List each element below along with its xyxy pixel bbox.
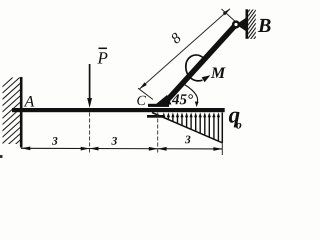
- force P arrow: [89, 64, 91, 100]
- extension line below load edge: [221, 143, 223, 155]
- extension line at C: [157, 113, 159, 154]
- distributed load arrows: [164, 116, 219, 142]
- dimension line 8 for strut: [140, 9, 231, 89]
- wall hatching at A: [1, 70, 21, 164]
- label 3 third: [185, 136, 191, 144]
- load right edge: [221, 112, 223, 142]
- base plate at C upper: [148, 104, 169, 107]
- 45 degree arc: [185, 85, 198, 104]
- distributed load hypotenuse: [152, 113, 222, 143]
- pin circle at B: [232, 20, 240, 28]
- pin support triangle at B: [236, 17, 247, 32]
- beam AD horizontal: [12, 108, 225, 112]
- label q0: [229, 112, 240, 128]
- label A: [24, 96, 35, 107]
- strut CB: [165, 25, 236, 103]
- wall hatching at B: [247, 1, 257, 49]
- moment M arc: [186, 55, 203, 81]
- label 3 second: [111, 137, 117, 145]
- label 8: [170, 32, 182, 44]
- label M: [211, 68, 226, 78]
- label P bar: [97, 52, 107, 63]
- label C: [137, 96, 146, 105]
- extension line at P: [89, 113, 91, 153]
- wall line at B: [246, 9, 249, 39]
- label B: [258, 19, 271, 32]
- lower plate at C: [147, 115, 165, 118]
- tick near B: [222, 9, 236, 21]
- speck bottom left: [0, 155, 3, 158]
- dim arrows: [21, 147, 222, 151]
- label 45: [172, 94, 193, 104]
- tick near C: [138, 88, 153, 99]
- wall line at A: [20, 77, 23, 148]
- label 3 first: [52, 137, 58, 145]
- strut foot flare: [156, 95, 172, 105]
- bottom dimension line: [21, 147, 222, 150]
